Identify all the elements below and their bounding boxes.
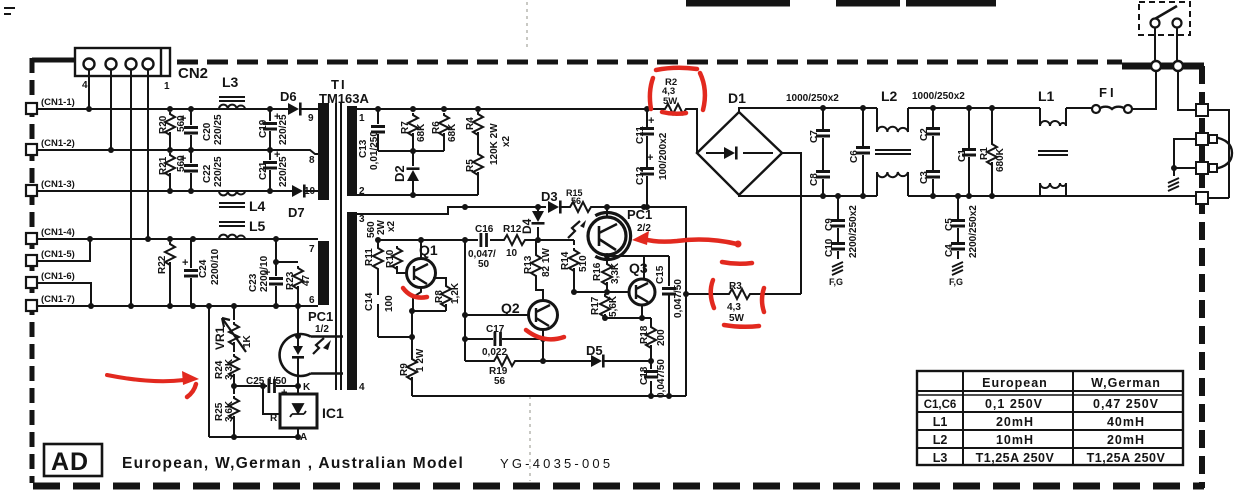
svg-text:+: + (274, 149, 280, 161)
svg-text:T1,25A 250V: T1,25A 250V (1087, 451, 1166, 465)
svg-text:(CN1-4): (CN1-4) (41, 227, 75, 238)
svg-text:C1: C1 (957, 149, 968, 162)
svg-text:C17: C17 (486, 324, 505, 335)
svg-text:0,1 250V: 0,1 250V (985, 397, 1043, 411)
svg-text:1 2W: 1 2W (415, 348, 426, 372)
svg-text:D6: D6 (280, 89, 297, 104)
svg-text:C11: C11 (635, 126, 646, 144)
svg-text:20mH: 20mH (996, 415, 1034, 429)
svg-text:C7: C7 (809, 130, 820, 143)
svg-text:R21: R21 (158, 156, 169, 175)
svg-text:10mH: 10mH (996, 433, 1034, 447)
svg-text:European: European (982, 376, 1048, 390)
svg-text:R6: R6 (431, 121, 442, 134)
svg-text:0,047/50: 0,047/50 (673, 279, 684, 318)
svg-text:(CN1-2): (CN1-2) (41, 138, 75, 149)
svg-text:C21: C21 (258, 161, 269, 180)
svg-text:C18: C18 (639, 366, 650, 385)
svg-text:0,047/50: 0,047/50 (656, 359, 667, 398)
svg-text:1/2: 1/2 (315, 324, 329, 335)
svg-text:L1: L1 (933, 415, 948, 429)
svg-text:7: 7 (309, 244, 315, 255)
svg-text:C1,C6: C1,C6 (924, 399, 957, 411)
svg-text:R17: R17 (590, 296, 601, 315)
svg-text:R3: R3 (729, 281, 742, 292)
svg-text:82 1W: 82 1W (541, 248, 552, 277)
svg-text:R14: R14 (560, 251, 571, 270)
svg-text:4: 4 (359, 382, 365, 393)
svg-text:(CN1-7): (CN1-7) (41, 294, 75, 305)
svg-text:C25 1/50: C25 1/50 (246, 376, 287, 387)
svg-text:(CN1-3): (CN1-3) (41, 179, 75, 190)
svg-text:PC1: PC1 (627, 207, 652, 222)
svg-text:510: 510 (578, 255, 589, 272)
svg-text:C15: C15 (655, 265, 666, 284)
svg-text:(CN1-6): (CN1-6) (41, 271, 75, 282)
svg-text:C13: C13 (358, 139, 369, 158)
svg-text:R5: R5 (465, 159, 476, 172)
svg-text:20mH: 20mH (1107, 433, 1145, 447)
svg-text:1,2K: 1,2K (450, 282, 461, 304)
svg-text:IC1: IC1 (322, 405, 344, 421)
svg-text:C4: C4 (944, 244, 955, 257)
svg-text:47: 47 (301, 274, 312, 286)
svg-text:1K: 1K (242, 334, 253, 348)
svg-text:C16: C16 (475, 224, 494, 235)
svg-text:R22: R22 (157, 255, 168, 274)
svg-text:3,3K: 3,3K (610, 262, 621, 284)
svg-text:10: 10 (506, 248, 518, 259)
svg-text:R23: R23 (285, 271, 296, 290)
svg-text:C6: C6 (849, 150, 860, 163)
svg-text:R10: R10 (385, 249, 396, 268)
svg-text:68K: 68K (416, 123, 427, 142)
svg-text:Q1: Q1 (419, 242, 438, 258)
svg-text:220/25: 220/25 (213, 114, 224, 145)
svg-text:C8: C8 (809, 173, 820, 186)
svg-text:x2: x2 (501, 135, 512, 147)
svg-text:+: + (182, 257, 188, 269)
svg-text:K: K (303, 382, 311, 393)
svg-text:D2: D2 (392, 165, 407, 182)
svg-text:6: 6 (309, 295, 315, 306)
svg-text:C24: C24 (198, 259, 209, 278)
svg-text:50: 50 (478, 259, 490, 270)
svg-text:D7: D7 (288, 205, 305, 220)
svg-text:1: 1 (164, 81, 170, 92)
svg-text:C12: C12 (635, 166, 646, 185)
svg-text:R7: R7 (400, 121, 411, 134)
svg-text:3,6K: 3,6K (224, 400, 235, 422)
svg-text:Q3: Q3 (629, 260, 648, 276)
svg-text:C2: C2 (919, 128, 930, 141)
svg-text:100/200x2: 100/200x2 (658, 132, 669, 180)
svg-text:C3: C3 (919, 171, 930, 184)
svg-text:C14: C14 (364, 292, 375, 311)
svg-text:R11: R11 (364, 248, 375, 266)
svg-text:A: A (300, 432, 307, 443)
svg-text:F,G: F,G (829, 277, 843, 287)
svg-text:120K 2W: 120K 2W (489, 123, 500, 165)
svg-text:4,3: 4,3 (727, 302, 741, 313)
svg-text:VR1: VR1 (213, 326, 227, 350)
svg-text:+: + (647, 152, 653, 164)
svg-text:1000/250x2: 1000/250x2 (786, 93, 839, 104)
svg-text:TM163A: TM163A (319, 91, 369, 106)
svg-text:(CN1-5): (CN1-5) (41, 249, 75, 260)
svg-text:C22: C22 (202, 164, 213, 183)
svg-text:9: 9 (308, 113, 314, 124)
svg-text:Q2: Q2 (501, 300, 520, 316)
svg-text:D1: D1 (728, 90, 746, 106)
svg-text:C9: C9 (824, 218, 835, 231)
svg-text:2200/250x2: 2200/250x2 (848, 205, 859, 258)
svg-text:0,022: 0,022 (482, 347, 507, 358)
svg-text:4: 4 (82, 80, 88, 91)
svg-text:56: 56 (494, 376, 506, 387)
svg-text:100: 100 (384, 295, 395, 312)
svg-text:x2: x2 (386, 220, 397, 232)
svg-text:5W: 5W (729, 313, 745, 324)
svg-text:+: + (281, 387, 287, 399)
svg-text:+: + (180, 153, 186, 165)
svg-text:C10: C10 (824, 238, 835, 257)
svg-text:5,6K: 5,6K (608, 295, 619, 317)
svg-text:2200/250x2: 2200/250x2 (968, 205, 979, 258)
svg-text:0,01/250: 0,01/250 (369, 131, 380, 170)
svg-text:56: 56 (571, 196, 581, 206)
svg-text:C20: C20 (202, 122, 213, 141)
svg-text:CN2: CN2 (178, 65, 208, 82)
svg-text:(CN1-1): (CN1-1) (41, 97, 75, 108)
svg-text:L2: L2 (933, 433, 948, 447)
svg-text:YG-4035-005: YG-4035-005 (500, 456, 613, 471)
svg-text:T1,25A 250V: T1,25A 250V (976, 451, 1055, 465)
svg-text:R16: R16 (592, 262, 603, 281)
svg-text:L4: L4 (249, 198, 266, 214)
svg-text:R12: R12 (503, 224, 522, 235)
svg-text:68K: 68K (447, 123, 458, 142)
svg-text:200: 200 (656, 329, 667, 346)
svg-text:3,3K: 3,3K (224, 358, 235, 380)
svg-text:R1: R1 (979, 147, 990, 160)
svg-text:+: + (180, 113, 186, 125)
svg-text:C5: C5 (944, 218, 955, 231)
svg-text:D3: D3 (541, 189, 558, 204)
svg-text:L1: L1 (1038, 88, 1055, 104)
svg-text:5W: 5W (663, 96, 677, 107)
svg-text:L3: L3 (222, 74, 239, 90)
svg-text:F,G: F,G (949, 277, 963, 287)
svg-text:R13: R13 (523, 255, 534, 274)
svg-text:C23: C23 (248, 273, 259, 292)
svg-text:1: 1 (359, 113, 365, 124)
svg-text:680K: 680K (995, 147, 1006, 172)
svg-text:8: 8 (309, 155, 315, 166)
svg-text:European, W,German , Australia: European, W,German , Australian Model (122, 455, 464, 472)
svg-text:40mH: 40mH (1107, 415, 1145, 429)
svg-text:W,German: W,German (1091, 376, 1161, 390)
svg-text:PC1: PC1 (308, 309, 333, 324)
svg-text:L3: L3 (933, 451, 948, 465)
svg-text:10: 10 (304, 186, 316, 197)
svg-text:1000/250x2: 1000/250x2 (912, 91, 965, 102)
svg-text:FI: FI (1099, 85, 1117, 100)
svg-text:+: + (648, 115, 654, 127)
svg-text:2/2: 2/2 (637, 223, 651, 234)
svg-text:3: 3 (359, 214, 365, 225)
svg-text:L5: L5 (249, 218, 266, 234)
svg-text:220/25: 220/25 (213, 156, 224, 187)
svg-text:2200/10: 2200/10 (210, 248, 221, 285)
svg-text:L2: L2 (881, 88, 898, 104)
svg-text:R: R (270, 413, 278, 424)
svg-text:R8: R8 (434, 290, 445, 303)
svg-text:0,47 250V: 0,47 250V (1093, 397, 1159, 411)
svg-text:R20: R20 (158, 115, 169, 134)
svg-text:R18: R18 (639, 325, 650, 344)
svg-text:TI: TI (331, 77, 347, 92)
svg-text:+: + (274, 111, 280, 123)
svg-text:AD: AD (51, 448, 89, 476)
svg-text:D4: D4 (520, 218, 534, 234)
svg-text:R9: R9 (399, 363, 410, 376)
svg-text:D5: D5 (586, 343, 603, 358)
svg-text:R4: R4 (465, 117, 476, 130)
